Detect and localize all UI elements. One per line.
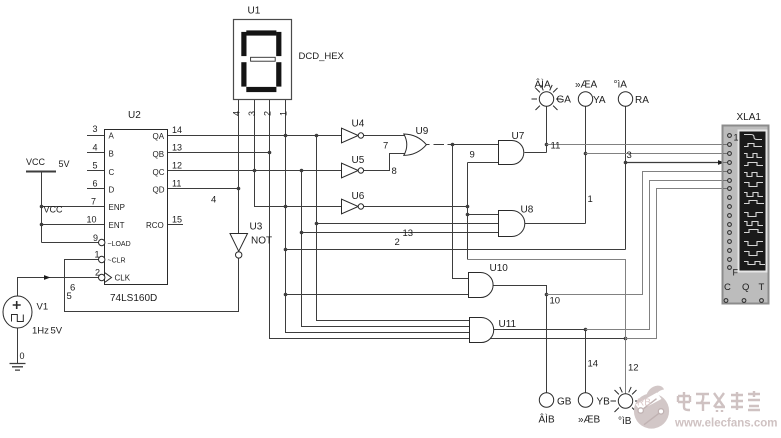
svg-text:4: 4 xyxy=(232,111,242,116)
wire QC row U2 to U5 input xyxy=(168,170,342,172)
node QB junction xyxy=(268,151,272,155)
svg-text:U2: U2 xyxy=(128,110,141,121)
svg-text:ENP: ENP xyxy=(109,203,125,212)
arrow on CLK wire xyxy=(44,275,51,280)
probe GB xyxy=(539,393,553,407)
svg-text:10: 10 xyxy=(87,215,97,225)
svg-text:1: 1 xyxy=(734,133,739,143)
node QA junction U1 pin1 xyxy=(284,134,288,138)
wire U4 output to U9 top input xyxy=(364,135,407,137)
node GA / XLA pin1 junction xyxy=(545,143,549,147)
wire RA row left to v285 xyxy=(286,249,626,251)
counter U2 box 74LS160D xyxy=(105,130,168,285)
svg-text:C: C xyxy=(724,282,731,293)
svg-text:1Hz: 1Hz xyxy=(32,326,49,337)
svg-text:3: 3 xyxy=(627,150,632,161)
wire U7 output to GA vertical xyxy=(525,152,547,154)
svg-text:9: 9 xyxy=(93,233,98,243)
XLA1 screen waveforms xyxy=(744,135,765,265)
wire XLA pin2 row xyxy=(586,153,724,155)
XLA1 C Q T terminals xyxy=(724,299,728,303)
segment A xyxy=(246,30,276,35)
wire QB row U2 to U1 pin2 vertical xyxy=(168,152,270,154)
wire U5 output to U9 bottom input xyxy=(364,154,407,171)
wire v301 QC branch to U8 bottom and U11 mid xyxy=(302,171,470,327)
segment B xyxy=(276,32,281,56)
svg-text:www.elecfans.com: www.elecfans.com xyxy=(674,418,777,430)
and gate U8 xyxy=(499,211,525,237)
CLK bubble xyxy=(99,274,105,280)
node v317 U8 tap xyxy=(315,222,319,226)
svg-text:3: 3 xyxy=(93,124,98,134)
node U9 output branch xyxy=(451,143,455,147)
pin stub D xyxy=(87,188,105,190)
wire GB row to XLA pin4 xyxy=(547,172,724,295)
svg-text:U7: U7 xyxy=(512,131,525,142)
svg-text:14: 14 xyxy=(172,125,182,135)
svg-text:1: 1 xyxy=(278,111,288,116)
pin stub RCO xyxy=(168,224,184,226)
svg-text:4: 4 xyxy=(211,195,216,206)
~CLR bubble xyxy=(99,256,105,262)
svg-text:10: 10 xyxy=(550,295,561,306)
not gate U3 xyxy=(230,234,248,259)
svg-text:U5: U5 xyxy=(352,155,365,166)
wire YA vertical xyxy=(585,106,587,223)
XLA1 pin terminals xyxy=(724,134,763,303)
node junction VCC-ENT xyxy=(40,223,44,227)
and gate U10 xyxy=(469,273,494,298)
svg-text:12: 12 xyxy=(628,363,639,374)
svg-text:U1: U1 xyxy=(248,6,261,17)
node YB branch xyxy=(584,328,588,332)
wire VCC vertical xyxy=(41,172,43,243)
wire QA row U2 to U4 input xyxy=(168,135,342,137)
svg-text:RB: RB xyxy=(637,398,651,409)
svg-text:»ÆA: »ÆA xyxy=(575,80,598,91)
node RA / XLA pin3 junction xyxy=(624,161,628,165)
node GB branch xyxy=(545,293,549,297)
wire U7 bottom input horizontal xyxy=(468,162,499,164)
svg-text:9: 9 xyxy=(470,150,475,161)
pin stub C xyxy=(87,170,105,172)
svg-text:ÂÌA: ÂÌA xyxy=(535,78,551,91)
wire YB vertical xyxy=(585,330,587,393)
node U10 row tap xyxy=(284,293,288,297)
svg-text:A: A xyxy=(109,131,115,140)
svg-text:3: 3 xyxy=(247,111,257,116)
wire V1 to ground xyxy=(17,328,19,363)
svg-text:U6: U6 xyxy=(352,191,365,202)
segment G off xyxy=(251,57,276,61)
voltage source V1 xyxy=(3,296,32,328)
wire U6 output xyxy=(364,206,468,208)
svg-text:13: 13 xyxy=(403,228,414,239)
svg-text:QA: QA xyxy=(153,132,165,141)
svg-text:XLA1: XLA1 xyxy=(737,112,762,123)
pin stub A xyxy=(87,135,105,137)
wire ~CLR feedback loop from U3 output xyxy=(65,258,239,311)
segment F xyxy=(241,32,246,56)
svg-text:13: 13 xyxy=(172,142,182,152)
segment C xyxy=(276,62,281,86)
or gate U9 xyxy=(404,134,427,155)
arrow on XLA pin3 wire xyxy=(718,160,725,165)
probe RB lit xyxy=(611,387,641,412)
~LOAD bubble xyxy=(99,239,105,245)
svg-text:C: C xyxy=(109,168,115,177)
svg-text:QB: QB xyxy=(153,150,165,159)
wire v467 U7 bottom input branch xyxy=(467,163,469,260)
svg-text:5V: 5V xyxy=(51,326,63,337)
svg-text:F: F xyxy=(733,268,739,278)
wire U1 pin1 vertical with taps then U11 bottom input xyxy=(286,100,470,333)
svg-text:1: 1 xyxy=(588,194,593,205)
node junction VCC-ENP xyxy=(40,205,44,209)
inverter U6 xyxy=(342,199,364,214)
node QD junction xyxy=(237,187,241,191)
svg-text:V1: V1 xyxy=(37,302,49,313)
svg-text:U11: U11 xyxy=(499,319,517,330)
node YA / XLA pin2 junction xyxy=(584,152,588,156)
svg-text:VCC: VCC xyxy=(44,205,64,215)
svg-text:DCD_HEX: DCD_HEX xyxy=(299,51,345,62)
svg-text:U4: U4 xyxy=(352,119,365,130)
wire V1 to CLK pin xyxy=(18,278,99,297)
svg-text:VCC: VCC xyxy=(26,157,46,167)
wire U11 output xyxy=(494,329,586,331)
svg-text:QC: QC xyxy=(153,168,165,177)
svg-text:U8: U8 xyxy=(521,205,534,216)
svg-text:D: D xyxy=(109,186,115,195)
wire XLA pin3 row xyxy=(626,162,720,164)
watermark logo xyxy=(634,386,669,429)
wire U6out run down to RB xyxy=(468,260,626,395)
wire ENT xyxy=(42,224,106,226)
svg-text:14: 14 xyxy=(588,359,599,370)
inverter U5 xyxy=(342,163,364,178)
probe YB xyxy=(578,393,592,407)
ground xyxy=(10,364,26,371)
wire ~LOAD xyxy=(42,242,99,244)
svg-text:QD: QD xyxy=(153,186,165,195)
svg-text:YA: YA xyxy=(593,95,606,106)
svg-text:T: T xyxy=(759,282,765,293)
logic analyzer XLA1 body xyxy=(723,126,769,304)
wire U1 pin3 vertical then U6 input row xyxy=(255,100,342,207)
svg-text:2: 2 xyxy=(262,111,272,116)
node v301 top xyxy=(300,169,304,173)
node v301 U8 tap xyxy=(300,231,304,235)
node RA row tap xyxy=(284,248,288,252)
svg-text:U10: U10 xyxy=(490,263,509,274)
segment E xyxy=(241,62,246,86)
svg-text:°ìB: °ìB xyxy=(618,416,632,427)
svg-text:6: 6 xyxy=(70,283,75,294)
svg-text:5: 5 xyxy=(93,161,98,171)
wire U8 output to YA vertical xyxy=(525,223,586,225)
svg-text:U3: U3 xyxy=(250,222,263,233)
node v317 top xyxy=(315,134,319,138)
svg-text:~LOAD: ~LOAD xyxy=(108,241,131,248)
svg-text:GA: GA xyxy=(557,95,572,106)
svg-text:2: 2 xyxy=(95,267,100,277)
and gate U11 xyxy=(470,318,494,343)
inverter U4 xyxy=(342,128,364,143)
wire U10 bottom input xyxy=(286,294,469,296)
wire U11/YB row to XLA pin5 xyxy=(586,181,724,330)
probe RA xyxy=(618,92,632,106)
wire stubs entering XLA pins xyxy=(723,145,728,189)
svg-text:CLK: CLK xyxy=(115,273,131,282)
svg-text:7: 7 xyxy=(91,197,96,207)
wire ENP xyxy=(42,206,106,208)
VCC symbol bar xyxy=(26,171,56,173)
svg-text:~CLR: ~CLR xyxy=(108,257,126,264)
wire U9 output to U7 top input xyxy=(427,144,499,146)
svg-text:4: 4 xyxy=(93,142,98,152)
wire QB/RB row to XLA pin6 xyxy=(626,189,724,339)
wire v452 U9 output down to U10 top input xyxy=(453,145,469,279)
display U1 box xyxy=(234,20,292,100)
svg-text:2: 2 xyxy=(395,237,400,248)
svg-text:0: 0 xyxy=(20,351,25,361)
svg-text:11: 11 xyxy=(172,178,181,188)
wire U1 pin4 vertical + U3 input xyxy=(238,100,240,234)
wire XLA pin1 row xyxy=(547,144,724,146)
svg-text:15: 15 xyxy=(172,215,182,225)
segment D xyxy=(246,87,276,92)
svg-text:12: 12 xyxy=(172,161,182,171)
svg-text:5V: 5V xyxy=(59,159,70,169)
wire v317 QA branch to U8 mid and U11 top xyxy=(317,136,470,321)
svg-text:RCO: RCO xyxy=(146,221,164,230)
svg-text:Q: Q xyxy=(742,282,749,293)
svg-text:7: 7 xyxy=(383,141,388,152)
svg-text:U9: U9 xyxy=(416,126,429,137)
svg-text:°ìA: °ìA xyxy=(614,80,628,91)
svg-text:11: 11 xyxy=(551,140,561,151)
svg-text:74LS160D: 74LS160D xyxy=(110,293,157,304)
wire QD row U2 to U1 pin4 vertical xyxy=(168,188,239,190)
svg-text:6: 6 xyxy=(93,178,98,188)
svg-text:ENT: ENT xyxy=(109,221,125,230)
svg-text:YB: YB xyxy=(597,397,611,408)
wire RA vertical xyxy=(625,106,627,249)
svg-text:8: 8 xyxy=(392,166,397,177)
wire U1 pin2 vertical then QB run xyxy=(270,100,626,339)
wire U8 top input xyxy=(468,214,499,216)
wire U8 mid input xyxy=(317,223,499,225)
svg-text:1: 1 xyxy=(95,250,100,260)
node QC junction xyxy=(253,169,257,173)
CLK edge triangle xyxy=(105,273,112,282)
wire U10 output down to GB xyxy=(493,286,547,393)
pin stub B xyxy=(87,152,105,154)
node U6 input tap xyxy=(284,205,288,209)
svg-text:B: B xyxy=(109,150,114,159)
gray bus wires to logic analyzer xyxy=(468,145,724,395)
svg-text:NOT: NOT xyxy=(251,236,272,247)
svg-text:RA: RA xyxy=(635,95,649,106)
node v467 U8 top tap xyxy=(466,213,470,217)
probe GA lit xyxy=(532,85,562,110)
probe YA xyxy=(578,92,592,106)
and gate U7 xyxy=(499,141,524,165)
wire U8 bottom input xyxy=(302,232,499,234)
node RB junction on QB row xyxy=(624,337,628,341)
svg-text:»ÆB: »ÆB xyxy=(578,415,601,426)
node U6 output junction xyxy=(466,205,470,209)
svg-text:GB: GB xyxy=(557,397,572,408)
wire GA vertical xyxy=(546,106,548,152)
watermark chinese text strokes xyxy=(678,391,760,412)
svg-text:ÂÌB: ÂÌB xyxy=(539,413,555,426)
